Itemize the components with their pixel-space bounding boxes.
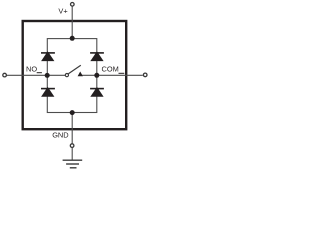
svg-text:NO: NO (26, 64, 37, 73)
svg-text:GND: GND (52, 130, 68, 139)
svg-text:COM: COM (102, 64, 119, 73)
svg-text:V+: V+ (58, 7, 67, 16)
